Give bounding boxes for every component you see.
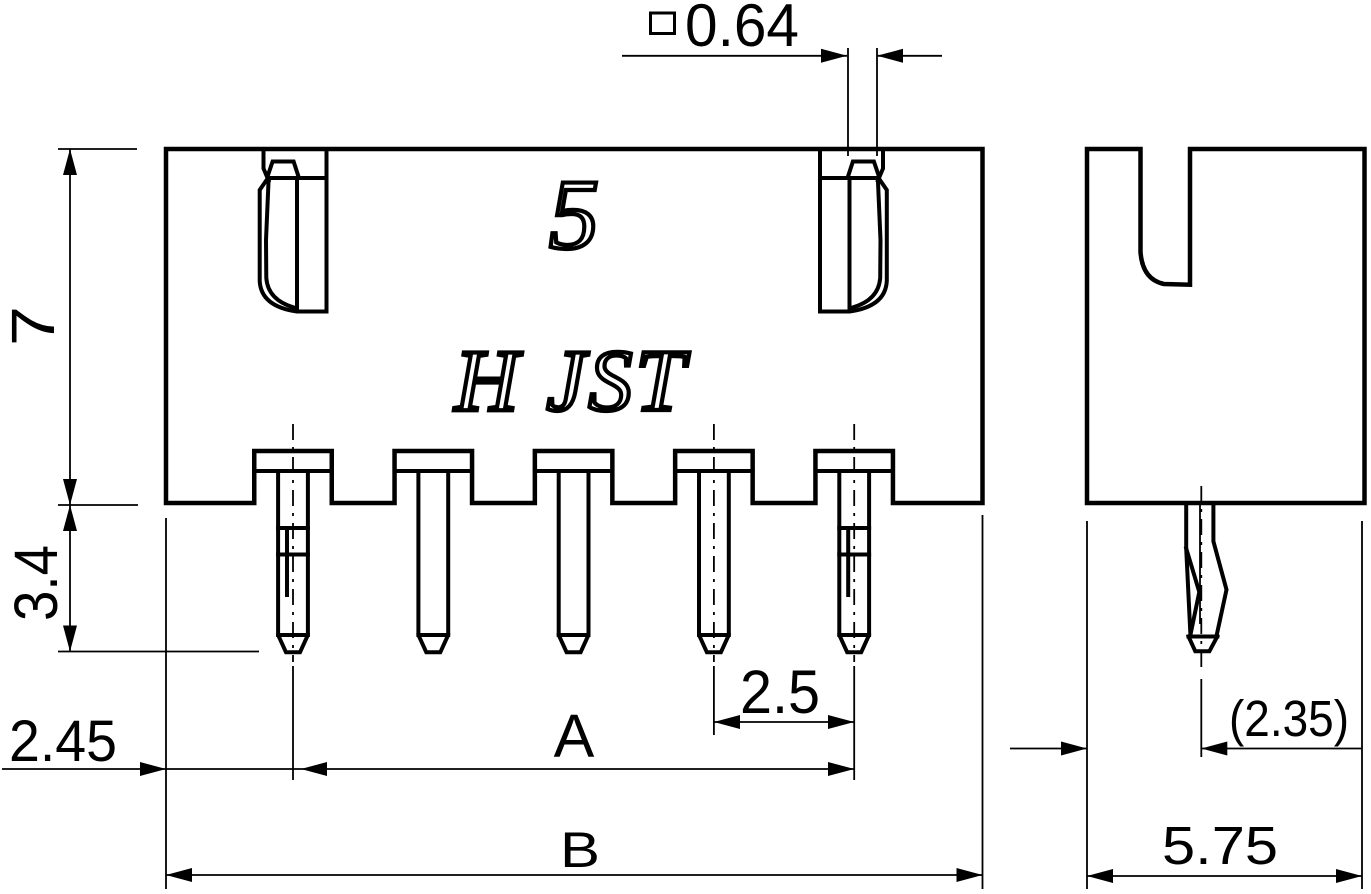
side pin	[1186, 505, 1226, 651]
dim 2.45 / A line	[2, 768, 854, 770]
svg-text:(2.35): (2.35)	[1229, 690, 1349, 747]
body B extension lines	[166, 515, 983, 889]
svg-text:B: B	[560, 822, 600, 878]
pin 5 extension line	[853, 666, 855, 780]
pin 5 shoulder	[815, 469, 893, 473]
svg-text:H JST: H JST	[454, 333, 691, 430]
pin 2	[418, 471, 448, 652]
svg-text:3.4: 3.4	[2, 545, 70, 621]
pin 1 centerline	[292, 424, 294, 662]
dim 3.4 line	[69, 505, 71, 652]
pin 5 plating marks	[839, 528, 869, 555]
dim 5.75 line	[1087, 875, 1362, 877]
dim 0.64 arrows	[821, 49, 847, 63]
pin 4 centerline	[713, 424, 715, 662]
pin 4 extension line	[713, 666, 715, 735]
side pin extension line	[1200, 679, 1202, 757]
dim 2.35 line	[1010, 748, 1362, 750]
dim 2.5 line	[714, 721, 854, 723]
front view body outline	[166, 149, 983, 503]
side pin inner edge	[1199, 505, 1201, 624]
pin 1 extension line	[292, 666, 294, 780]
pin 5	[839, 471, 869, 652]
svg-text:2.5: 2.5	[740, 658, 820, 726]
dim 0.64 extension lines	[848, 48, 877, 156]
latch left	[260, 149, 327, 312]
dim B line	[166, 874, 983, 876]
svg-text:2.45: 2.45	[9, 709, 117, 774]
pin 4 shoulder	[675, 469, 753, 473]
pin 1	[278, 471, 308, 652]
pin 1 plating marks	[278, 528, 308, 555]
pin 3 shoulder	[535, 469, 613, 473]
pin 3	[559, 471, 589, 652]
dim 0.64 line	[622, 55, 942, 57]
dim 7 ticks	[58, 149, 138, 505]
pin 2 shoulder	[395, 469, 473, 473]
dim 7 line	[69, 149, 71, 505]
side pin centerline	[1200, 486, 1202, 671]
pin 4	[699, 471, 729, 652]
pin 5 centerline	[853, 424, 855, 662]
latch right	[820, 149, 887, 312]
dim 3.4 ref line	[58, 651, 259, 653]
dim 0.64 square symbol	[651, 13, 675, 34]
svg-text:7: 7	[0, 306, 67, 346]
side view body outline	[1087, 149, 1365, 503]
pin 1 shoulder	[254, 469, 332, 473]
svg-text:5: 5	[549, 159, 599, 270]
svg-text:A: A	[554, 702, 595, 770]
svg-text:0.64: 0.64	[685, 0, 799, 59]
side view extension lines	[1087, 521, 1362, 889]
svg-text:5.75: 5.75	[1162, 816, 1278, 876]
